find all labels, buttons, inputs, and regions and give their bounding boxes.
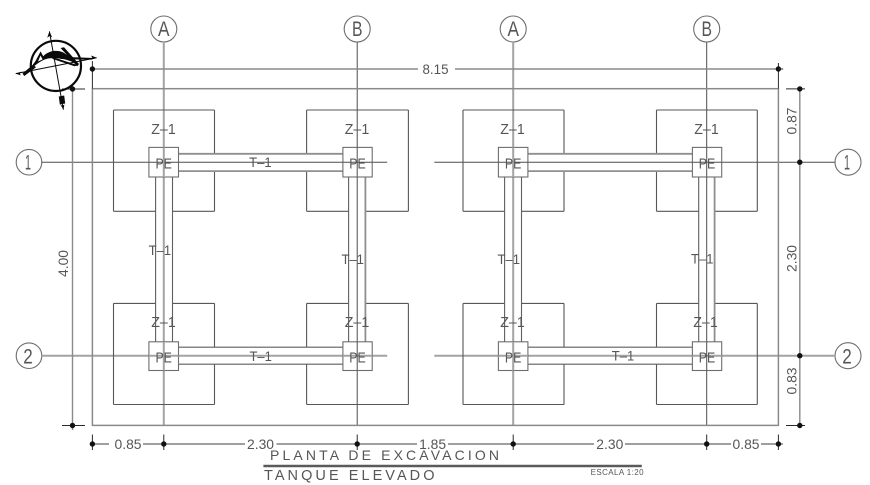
grid bubble 1 (right) — [835, 149, 861, 175]
extension tick top-left — [91, 61, 93, 89]
svg-text:A: A — [507, 18, 519, 41]
svg-text:ESCALA 1:20: ESCALA 1:20 — [591, 468, 644, 477]
svg-text:2: 2 — [842, 345, 852, 368]
column PE A1 row2 — [149, 342, 179, 371]
svg-text:2: 2 — [23, 345, 33, 368]
grid bubble A (left) — [151, 16, 177, 42]
bottom marker ticks — [92, 435, 778, 451]
extension tick right-bottom — [786, 425, 805, 427]
dimension line bottom (0.85 2.30 1.85 2.30 0.85) — [92, 436, 783, 452]
svg-text:Z–1: Z–1 — [694, 121, 719, 138]
svg-text:Z–1: Z–1 — [345, 121, 370, 138]
footing Z-1 B2 row1 — [657, 110, 758, 211]
dimension line 8.15 (top) — [92, 61, 778, 77]
extension tick right-top — [786, 88, 805, 90]
column PE A1 row1 — [149, 147, 179, 177]
beam T-1 column B1 left line — [348, 177, 350, 342]
svg-text:1: 1 — [844, 152, 850, 175]
footing Z-1 B1 row1 — [307, 110, 409, 211]
grid bubble B (right) — [694, 16, 720, 42]
beam T-1 row2 A1-B1 top line — [179, 346, 343, 348]
beam T-1 row2 A2-B2 top line — [528, 346, 693, 348]
svg-text:0.85: 0.85 — [733, 436, 760, 452]
grid line A (column, left tank) — [163, 42, 165, 425]
svg-text:Z–1: Z–1 — [151, 314, 176, 331]
north compass — [16, 31, 97, 109]
grid bubble 2 (right) — [835, 343, 861, 369]
grid line 1 (row, right segment) — [434, 161, 835, 163]
svg-text:Z–1: Z–1 — [345, 314, 370, 331]
compass W arrow — [16, 72, 22, 76]
grid line B (column, right tank) — [706, 42, 708, 425]
column PE A2 row2 — [498, 342, 528, 371]
svg-text:PE: PE — [505, 349, 522, 366]
svg-text:PE: PE — [349, 349, 366, 366]
compass tail stroke — [52, 58, 78, 67]
dimension line right (0.87 / 2.30 / 0.83) — [784, 89, 800, 426]
marker dot 4.00 top — [70, 86, 75, 91]
svg-text:T–1: T–1 — [691, 251, 714, 267]
grid line over PE boxes row1 — [149, 161, 179, 163]
svg-text:PE: PE — [155, 155, 172, 172]
beam T-1 row2 A2-B2 bottom line — [528, 363, 693, 365]
compass S hatch — [59, 96, 65, 105]
svg-text:PE: PE — [155, 349, 172, 366]
column PE B2 row2 — [692, 342, 721, 371]
compass 7-stroke — [61, 47, 79, 66]
footing Z-1 B1 row2 — [307, 303, 409, 404]
compass lower-left hook — [23, 65, 37, 76]
svg-text:PE: PE — [699, 349, 716, 366]
grid bubble A (right) — [500, 16, 526, 42]
beam T-1 row1 A1-B1 bottom line — [179, 170, 343, 172]
beam T-1 row1 A2-B2 top line — [528, 153, 693, 155]
beam T-1 column A1 right line — [172, 177, 174, 342]
footing Z-1 A1 row1 — [114, 110, 215, 211]
dimension line 4.00 (left) — [55, 85, 73, 431]
svg-text:Z–1: Z–1 — [151, 121, 176, 138]
svg-text:0.83: 0.83 — [784, 367, 800, 394]
svg-text:Z–1: Z–1 — [500, 314, 525, 331]
svg-text:8.15: 8.15 — [423, 61, 449, 77]
footing Z-1 A2 row2 — [463, 303, 564, 404]
marker dot 8.15 left — [90, 66, 95, 71]
grid line A (column, right tank) — [512, 42, 514, 425]
beam T-1 row2 A1-B1 bottom line — [179, 363, 343, 365]
svg-text:PE: PE — [505, 155, 522, 172]
marker dot 8.15 right — [776, 66, 784, 71]
column PE B1 row2 — [343, 342, 372, 371]
svg-text:T–1: T–1 — [249, 154, 272, 170]
title underline — [263, 465, 641, 467]
grid line 1 (row, left segment) — [42, 161, 387, 163]
footing Z-1 A2 row1 — [463, 110, 564, 211]
beam T-1 column A2 left line — [504, 177, 506, 342]
footing Z-1 A1 row2 — [114, 303, 215, 404]
svg-text:B: B — [701, 18, 712, 41]
beam T-1 column B1 right line — [364, 177, 366, 342]
marker dots right line — [797, 86, 802, 428]
svg-text:T–1: T–1 — [341, 251, 364, 267]
compass bird silhouette — [26, 51, 79, 75]
svg-text:1: 1 — [25, 152, 31, 175]
compass E arrow — [90, 56, 97, 61]
svg-text:PLANTA DE EXCAVACION: PLANTA DE EXCAVACION — [270, 447, 501, 463]
column PE A2 row1 — [498, 147, 528, 177]
svg-text:A: A — [158, 18, 170, 41]
grid line 2 (row, left segment) — [42, 355, 387, 357]
svg-text:PE: PE — [349, 155, 366, 172]
svg-text:T–1: T–1 — [612, 348, 635, 364]
svg-text:2.30: 2.30 — [596, 436, 623, 452]
bottom marker dots — [90, 441, 781, 446]
beam T-1 column A2 right line — [521, 177, 523, 342]
beam T-1 column B2 right line — [714, 177, 716, 342]
column PE B2 row1 — [692, 147, 721, 177]
extension tick left-top — [62, 88, 85, 90]
beam T-1 column B2 left line — [698, 177, 700, 342]
svg-text:4.00: 4.00 — [55, 250, 71, 277]
grid bubble B (left) — [344, 16, 370, 42]
svg-text:2.30: 2.30 — [784, 245, 800, 272]
extension tick top-right — [777, 63, 779, 89]
svg-text:0.87: 0.87 — [784, 107, 800, 134]
excavation boundary rectangle — [92, 89, 778, 426]
compass WE axis — [16, 58, 97, 74]
beam T-1 row1 A1-B1 top line — [179, 153, 343, 155]
compass NS top arrow — [47, 31, 52, 37]
grid bubble 2 (left) — [16, 343, 42, 369]
svg-text:T–1: T–1 — [149, 242, 172, 258]
grid line B (column, left tank) — [356, 42, 358, 425]
svg-text:TANQUE ELEVADO: TANQUE ELEVADO — [264, 468, 437, 484]
svg-text:0.85: 0.85 — [115, 436, 142, 452]
extension tick left-bottom — [62, 425, 85, 427]
footing Z-1 B2 row2 — [657, 303, 758, 404]
svg-text:T–1: T–1 — [498, 251, 521, 267]
marker dot 4.00 bottom — [70, 423, 75, 428]
compass circle — [31, 41, 81, 91]
svg-text:B: B — [352, 18, 363, 41]
svg-text:Z–1: Z–1 — [693, 314, 718, 331]
beam T-1 row1 A2-B2 bottom line — [528, 170, 693, 172]
grid line 2 (row, right segment) — [434, 355, 835, 357]
compass NS axis — [49, 31, 63, 109]
svg-text:PE: PE — [699, 155, 716, 172]
svg-text:T–1: T–1 — [249, 348, 272, 364]
svg-text:Z–1: Z–1 — [500, 121, 525, 138]
column PE B1 row1 — [343, 147, 372, 177]
compass wing band east — [59, 57, 94, 60]
beam T-1 column A1 left line — [155, 177, 157, 342]
grid bubble 1 (left) — [16, 149, 42, 175]
